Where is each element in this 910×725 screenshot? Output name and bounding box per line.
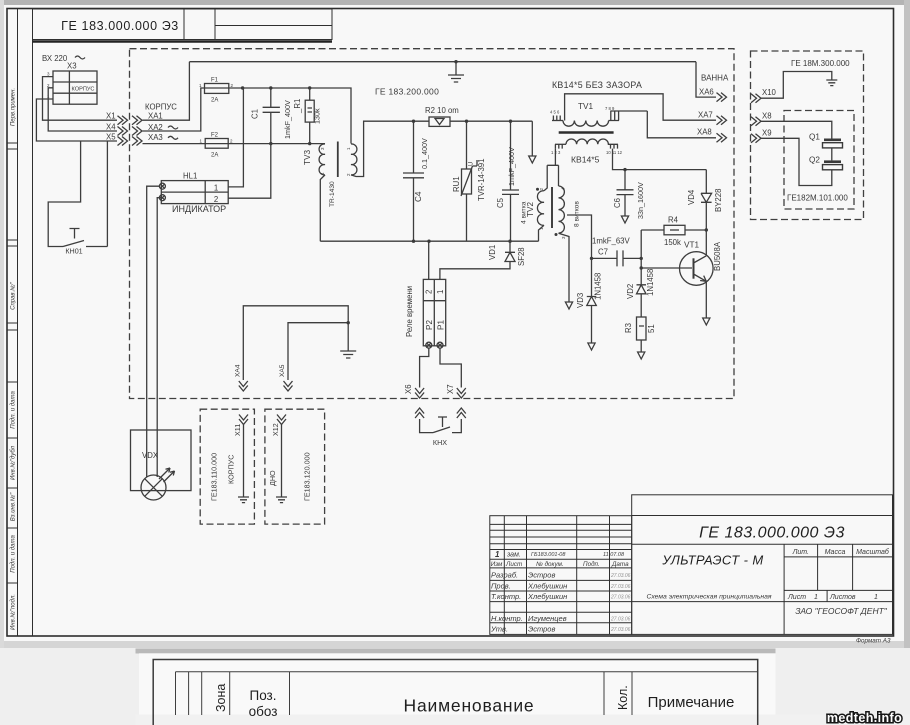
svg-text:Н.контр.: Н.контр.: [491, 614, 523, 623]
wire bottom node to relay P2: [428, 241, 430, 279]
svg-text:ХА7: ХА7: [698, 111, 713, 120]
svg-text:X3: X3: [67, 62, 77, 71]
wire X12 to ground: [281, 425, 283, 498]
resistor R3: [624, 317, 656, 359]
wire TV2 area to VD3 node: [567, 215, 592, 258]
svg-text:BU508A: BU508A: [713, 241, 722, 271]
wire XA1 to top node: [143, 62, 190, 120]
svg-text:зам.: зам.: [506, 552, 521, 559]
dashed box GE 18M.300.000: [751, 51, 864, 220]
svg-text:27.03.06: 27.03.06: [610, 616, 631, 622]
svg-text:Схема электрическая принципиал: Схема электрическая принципиальная: [646, 594, 771, 601]
svg-text:ГЕ 18М.300.000: ГЕ 18М.300.000: [791, 59, 850, 68]
wire TV2 pin3 down to chassis: [559, 233, 570, 302]
svg-text:ХА6: ХА6: [699, 88, 714, 97]
svg-text:VD4: VD4: [687, 189, 696, 205]
svg-text:P1: P1: [437, 320, 446, 330]
svg-text:1: 1: [436, 290, 445, 294]
connector XA1: [132, 112, 163, 125]
wire HL1 to VDX right: [157, 198, 162, 477]
svg-text:ГЕ183.120.000: ГЕ183.120.000: [303, 452, 312, 501]
svg-text:R2 10 om: R2 10 om: [425, 106, 459, 115]
svg-text:Подп.: Подп.: [583, 560, 600, 568]
svg-text:27.03.06: 27.03.06: [610, 584, 631, 590]
svg-text:VDX: VDX: [142, 451, 159, 460]
svg-text:Хлебушкин: Хлебушкин: [527, 592, 567, 601]
ground top: [455, 62, 457, 75]
wire XA3 to F2: [143, 143, 206, 145]
svg-text:1N1458: 1N1458: [646, 269, 655, 296]
wire XA2 to F1: [143, 88, 205, 131]
svg-text:Т.контр.: Т.контр.: [491, 592, 521, 601]
svg-text:4 5 6: 4 5 6: [550, 110, 560, 115]
transformer TV1: [550, 102, 647, 165]
svg-text:X4: X4: [106, 122, 116, 131]
ground X12: [276, 497, 287, 503]
wire TV1 bottom-right to VD4 node: [613, 149, 707, 170]
svg-text:Дата: Дата: [611, 561, 629, 568]
svg-text:ЗАО "ГЕОСОФТ ДЕНТ": ЗАО "ГЕОСОФТ ДЕНТ": [795, 606, 888, 616]
svg-text:F1: F1: [211, 78, 219, 84]
svg-text:Зона: Зона: [214, 684, 228, 712]
wire XA4 net: [243, 306, 348, 380]
sheet 2 frame: [153, 660, 758, 725]
diode VD3: [576, 258, 603, 350]
svg-text:TVR-14-391: TVR-14-391: [477, 159, 486, 201]
svg-text:X12: X12: [271, 423, 280, 436]
svg-text:R3: R3: [624, 323, 633, 333]
svg-text:X11: X11: [233, 424, 242, 436]
resistor R4: [641, 216, 706, 248]
svg-text:TV2: TV2: [526, 202, 535, 217]
svg-text:Эстров: Эстров: [528, 625, 555, 634]
connector XA2: [132, 123, 178, 136]
svg-text:C7: C7: [598, 248, 608, 257]
svg-text:1mkF_400V: 1mkF_400V: [283, 100, 292, 139]
svg-text:130k: 130k: [313, 108, 322, 124]
wire top node down to XA6: [696, 62, 716, 97]
svg-text:ГЕ 183.000.000 Э3: ГЕ 183.000.000 Э3: [699, 525, 845, 542]
ground X11: [238, 497, 249, 503]
capacitor C4: [403, 121, 429, 241]
connector X7 mate: [457, 408, 466, 418]
connector X11: [239, 415, 248, 425]
capacitor C5: [496, 121, 519, 241]
svg-text:Поз.: Поз.: [250, 688, 277, 703]
svg-text:КОРПУС: КОРПУС: [227, 455, 236, 484]
fuse F1: [199, 78, 234, 104]
svg-text:_R1: _R1: [293, 99, 302, 114]
resistor R1: [293, 88, 322, 144]
svg-text:2: 2: [214, 195, 218, 204]
connector X6 mate: [415, 408, 424, 418]
capacitor C1: [251, 88, 293, 144]
svg-text:ВАННА: ВАННА: [701, 74, 729, 83]
ground XA4/XA5: [340, 351, 356, 358]
svg-text:УЛЬТРАЭСТ - М: УЛЬТРАЭСТ - М: [661, 553, 763, 568]
svg-text:150k: 150k: [664, 238, 681, 247]
svg-text:Хлебушкин: Хлебушкин: [527, 582, 567, 591]
svg-text:R4: R4: [668, 216, 679, 225]
svg-text:КОРПУС: КОРПУС: [72, 87, 95, 93]
svg-text:RU1: RU1: [452, 176, 461, 192]
title block grid: [490, 495, 893, 635]
svg-text:Масштаб: Масштаб: [856, 548, 890, 556]
connector XA3: [132, 133, 178, 145]
fuse F2: [200, 133, 234, 159]
svg-text:BY228: BY228: [714, 189, 723, 212]
svg-text:1: 1: [214, 184, 218, 193]
svg-text:X9: X9: [762, 129, 772, 138]
wire F2 to TV3 pin3: [228, 143, 325, 145]
crystal Q1: [809, 133, 843, 161]
wire X3.2 to X4: [48, 88, 117, 131]
svg-text:Формат А3: Формат А3: [856, 638, 891, 645]
svg-text:Наименование: Наименование: [404, 696, 535, 716]
wire TV3 pin4 down: [320, 175, 325, 241]
wire relay P1 to X7: [440, 348, 461, 388]
svg-text:medteh.info: medteh.info: [827, 711, 902, 725]
connector X6: [404, 384, 424, 398]
svg-text:Лист: Лист: [787, 594, 806, 601]
wire X3.1 to X5: [36, 99, 117, 141]
transformer TV3: [303, 142, 357, 208]
svg-text:ГЕ 183.000.000 Э3: ГЕ 183.000.000 Э3: [61, 19, 179, 33]
svg-text:X5: X5: [106, 133, 116, 142]
svg-text:Игуменцев: Игуменцев: [528, 614, 567, 623]
lamp HL1: [159, 172, 228, 215]
connector X10: [751, 88, 777, 103]
transistor VT1: [680, 230, 723, 325]
svg-text:X7: X7: [446, 384, 455, 394]
svg-text:1N1458: 1N1458: [594, 273, 603, 300]
wire X9 to Q2: [761, 138, 832, 185]
svg-text:1: 1: [874, 594, 878, 601]
svg-text:Q1: Q1: [809, 133, 820, 142]
svg-text:27.03.06: 27.03.06: [610, 573, 631, 579]
svg-text:TV1: TV1: [578, 102, 593, 111]
svg-text:ХА8: ХА8: [697, 128, 712, 137]
svg-text:51: 51: [647, 324, 656, 333]
svg-text:ГЕ182М.101.000: ГЕ182М.101.000: [787, 194, 848, 203]
svg-text:Примечание: Примечание: [648, 694, 735, 711]
sheet 2 table: [176, 672, 758, 715]
connector X9: [751, 129, 772, 143]
svg-text:Q2: Q2: [809, 156, 820, 165]
main dashed boundary box: [130, 49, 735, 399]
switch KHX: [420, 417, 462, 447]
varistor RU1: [452, 121, 486, 241]
wire VD1 to relay P1: [440, 262, 510, 279]
svg-text:U: U: [469, 162, 475, 166]
connector X8: [751, 112, 772, 126]
svg-text:КОРПУС: КОРПУС: [145, 103, 177, 112]
svg-text:ВХ 220: ВХ 220: [42, 54, 68, 63]
svg-text:HL1: HL1: [183, 172, 197, 181]
svg-text:Вз.инв.№": Вз.инв.№": [10, 492, 17, 521]
lamp VDX: [141, 468, 175, 500]
wire TV1 top-left to XA7: [565, 94, 716, 121]
connector XA5: [279, 364, 292, 391]
svg-text:X1: X1: [106, 112, 116, 121]
svg-text:Кол.: Кол.: [616, 685, 630, 710]
connector X5: [106, 133, 128, 146]
svg-text:Инв.№"подл.: Инв.№"подл.: [10, 594, 17, 630]
svg-text:ХА5: ХА5: [279, 364, 286, 377]
svg-text:Утв.: Утв.: [490, 625, 508, 634]
svg-text:TR-1430: TR-1430: [329, 181, 336, 207]
chassis arrow right of C5: [531, 121, 533, 156]
svg-text:ХА3: ХА3: [148, 133, 163, 142]
svg-text:1: 1: [814, 594, 818, 601]
svg-text:Листов: Листов: [829, 594, 856, 601]
box X12 (GE183.120.000): [265, 409, 325, 524]
svg-text:33n_1600V: 33n_1600V: [636, 182, 645, 219]
svg-text:27.03.06: 27.03.06: [610, 595, 631, 601]
connector XA4: [235, 364, 248, 391]
wire TV3 pin2 to R2 node: [351, 121, 429, 176]
svg-text:VT1: VT1: [684, 241, 699, 250]
switch KH01: [63, 229, 107, 256]
diode VD2: [626, 268, 655, 317]
wire HL1.2 to C1 node: [228, 144, 271, 199]
connector XA8: [697, 128, 727, 143]
node C7 line: [592, 257, 642, 259]
svg-text:КВ14*5: КВ14*5: [571, 155, 600, 165]
svg-text:TV3: TV3: [303, 150, 312, 165]
svg-text:2: 2: [425, 290, 434, 294]
svg-text:Масса: Масса: [825, 549, 846, 556]
svg-text:Пров.: Пров.: [491, 582, 511, 591]
title block texts: [490, 525, 891, 645]
svg-text:X6: X6: [404, 384, 413, 394]
sheet 2 header texts: [214, 684, 734, 719]
watermark medteh.info: [827, 711, 902, 725]
svg-text:C4: C4: [414, 191, 423, 202]
svg-text:C1: C1: [251, 109, 260, 119]
sheet 2 paper with shadow: [0, 648, 910, 725]
wire R4 left branch: [641, 230, 692, 268]
svg-text:VD1: VD1: [488, 245, 497, 260]
wire TV1 top-right to XA8: [647, 111, 716, 138]
svg-text:7 8 9: 7 8 9: [605, 106, 615, 111]
svg-text:C6: C6: [613, 198, 622, 208]
svg-text:ГБ183.001-08: ГБ183.001-08: [531, 552, 566, 558]
svg-text:Справ.№": Справ.№": [10, 281, 17, 310]
svg-text:VD3: VD3: [576, 293, 585, 308]
wire XA5 net: [288, 323, 348, 380]
svg-text:КН01: КН01: [65, 247, 82, 256]
capacitor C6: [613, 170, 645, 223]
diode VD1: [488, 241, 526, 266]
lamp VDX box: [131, 430, 192, 491]
svg-text:8 витков: 8 витков: [574, 201, 581, 227]
svg-text:Эстров: Эстров: [528, 571, 555, 580]
svg-text:Инв.№"дубл: Инв.№"дубл: [10, 445, 17, 480]
svg-text:Разраб.: Разраб.: [491, 571, 518, 580]
svg-text:Изм: Изм: [491, 561, 503, 568]
main bottom wire node: [320, 240, 538, 242]
connector X7: [446, 384, 466, 398]
connector X12: [277, 415, 286, 425]
svg-text:0.1_400V: 0.1_400V: [420, 138, 429, 169]
svg-text:Лит.: Лит.: [792, 549, 809, 556]
svg-text:10 11 12: 10 11 12: [606, 150, 623, 155]
wire KH01 right to X5: [106, 141, 108, 247]
svg-text:27.03.06: 27.03.06: [610, 627, 631, 633]
svg-text:ХА4: ХА4: [235, 364, 242, 377]
svg-text:ИНДИКАТОР: ИНДИКАТОР: [172, 204, 226, 214]
svg-text:C5: C5: [496, 197, 505, 208]
svg-text:1mkF_63V: 1mkF_63V: [592, 237, 631, 246]
wire X8 to Q1: [761, 121, 832, 138]
svg-text:ГЕ 183.200.000: ГЕ 183.200.000: [375, 87, 439, 97]
transformer TV2: [521, 186, 581, 239]
svg-text:F2: F2: [211, 133, 219, 139]
wire X3.3 to X1: [43, 77, 118, 121]
svg-text:Перв.примен.: Перв.примен.: [11, 88, 17, 126]
svg-text:1mkF_400V: 1mkF_400V: [507, 147, 516, 186]
svg-text:КНХ: КНХ: [433, 438, 447, 447]
svg-text:ХА1: ХА1: [148, 112, 163, 121]
svg-text:2A: 2A: [211, 98, 218, 104]
svg-text:X10: X10: [762, 88, 777, 97]
wire TV1 bottom-left to TV2: [544, 149, 559, 191]
svg-text:обоз: обоз: [249, 704, 278, 719]
svg-text:X8: X8: [762, 112, 772, 121]
svg-text:Реле времени: Реле времени: [405, 286, 414, 337]
wire KH01 loop left: [48, 141, 80, 247]
svg-text:Подп. и дата: Подп. и дата: [11, 391, 17, 429]
svg-text:11.07.08: 11.07.08: [603, 552, 625, 558]
svg-text:Лист: Лист: [505, 561, 522, 568]
connector XA7: [698, 111, 727, 125]
box X11 (GE183.110.000): [200, 409, 254, 524]
wire F1 to TV3 pin1: [229, 88, 351, 144]
svg-text:ДНО: ДНО: [268, 470, 277, 486]
connector X3: [47, 62, 97, 105]
svg-text:Подп. и дата: Подп. и дата: [11, 535, 17, 573]
resistor R2: [425, 106, 459, 126]
relay P1 P2: [405, 279, 446, 348]
wire X11 to ground: [243, 425, 245, 498]
crystal Q2: [809, 156, 843, 170]
wire R2 to C5 corner: [450, 120, 532, 122]
wire HL1.1 up: [228, 88, 243, 187]
node top supply wire: [189, 61, 696, 63]
svg-text:КВ14*5 БЕЗ ЗАЗОРА: КВ14*5 БЕЗ ЗАЗОРА: [552, 80, 642, 90]
wire relay P2 to X6: [420, 348, 429, 388]
label BX 220: [42, 54, 85, 63]
svg-text:SF28: SF28: [517, 247, 526, 266]
connector XA6: [699, 88, 727, 102]
connector X4: [106, 122, 128, 135]
svg-text:№ докум.: № докум.: [536, 560, 564, 568]
svg-text:P2: P2: [425, 320, 434, 330]
svg-text:VD2: VD2: [626, 284, 635, 299]
ground X10: [826, 80, 837, 86]
diode VD4: [687, 170, 723, 230]
svg-text:2A: 2A: [211, 153, 218, 159]
dashed box GE182M.101.000: [784, 111, 854, 210]
connector X1: [106, 112, 128, 125]
svg-text:1: 1: [495, 550, 500, 559]
wire TV2 pin1 to bottom node: [539, 225, 545, 241]
capacitor C7: [592, 237, 631, 267]
wire HL1 to VDX left: [147, 186, 160, 477]
wire X10 to ground: [761, 72, 832, 99]
svg-text:ГЕ183.110.000: ГЕ183.110.000: [210, 453, 219, 501]
